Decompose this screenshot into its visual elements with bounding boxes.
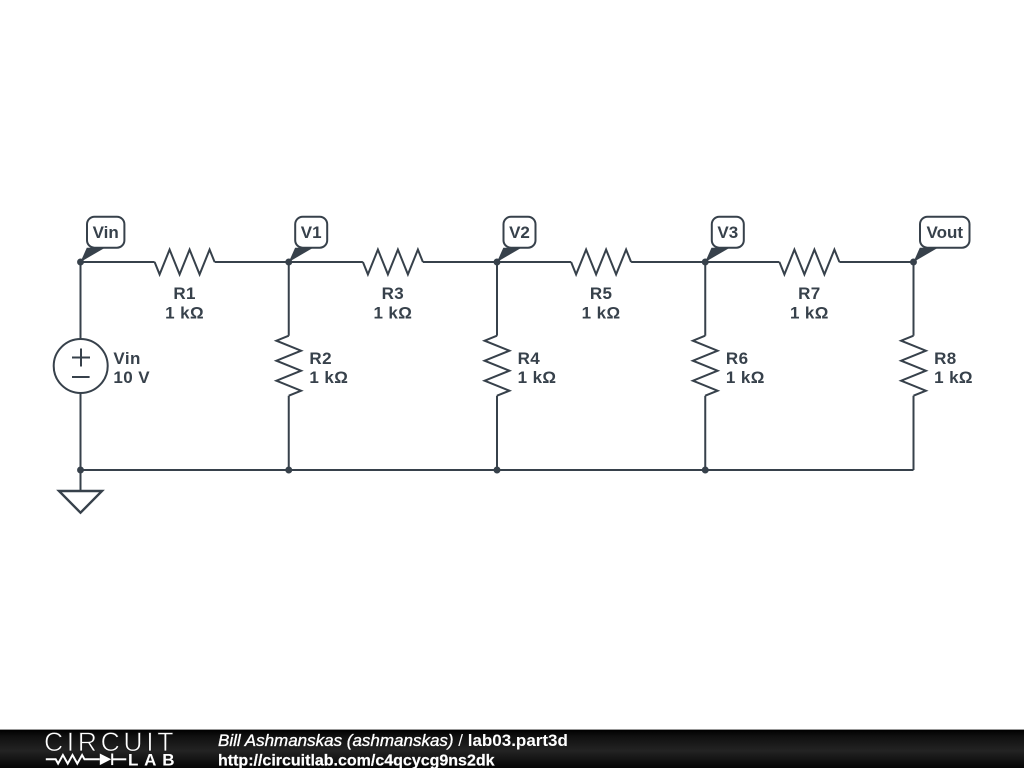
svg-text:1 kΩ: 1 kΩ xyxy=(373,304,412,323)
wire top segment R5 to V3 xyxy=(631,261,705,263)
svg-text:R1: R1 xyxy=(173,284,196,303)
resistor R4 xyxy=(485,336,510,396)
wire R2 down to bottom rail xyxy=(288,396,290,470)
svg-text:R7: R7 xyxy=(798,284,821,303)
wire R8 down to bottom rail xyxy=(913,396,915,470)
svg-text:1 kΩ: 1 kΩ xyxy=(582,304,621,323)
wire R6 down to bottom rail xyxy=(704,396,706,470)
bottom rail junction dot below Vin xyxy=(77,467,84,474)
wire top segment V3 to R7 xyxy=(705,261,779,263)
svg-text:Vin: Vin xyxy=(93,223,119,242)
svg-text:V1: V1 xyxy=(301,223,322,242)
node V2 junction dot xyxy=(494,259,501,266)
wire source bottom to bottom rail xyxy=(80,393,82,470)
svg-text:1 kΩ: 1 kΩ xyxy=(165,304,204,323)
ground xyxy=(59,491,102,513)
svg-text:1 kΩ: 1 kΩ xyxy=(934,368,973,387)
resistor R5 xyxy=(571,250,631,275)
wire V2 node down to R4 xyxy=(496,262,498,336)
svg-text:Vout: Vout xyxy=(927,223,964,242)
node V2 flag xyxy=(497,248,522,262)
svg-text:1 kΩ: 1 kΩ xyxy=(726,368,765,387)
svg-text:1 kΩ: 1 kΩ xyxy=(518,368,557,387)
bottom rail junction dot below V3 xyxy=(702,467,709,474)
svg-text:R2: R2 xyxy=(309,349,332,368)
svg-text:R8: R8 xyxy=(934,349,957,368)
svg-text:R5: R5 xyxy=(590,284,613,303)
node V1 junction dot xyxy=(285,259,292,266)
wire V1 node down to R2 xyxy=(288,262,290,336)
node V1 flag xyxy=(289,248,313,262)
wire Vin node down to source top xyxy=(80,262,82,339)
wire top segment V1 to R3 xyxy=(289,261,363,263)
CircuitLab logo: resistor-diode symbol xyxy=(46,755,100,764)
svg-text:R6: R6 xyxy=(726,349,749,368)
svg-text:V2: V2 xyxy=(509,223,530,242)
node Vin flag xyxy=(81,248,106,262)
resistor R8 xyxy=(901,336,926,396)
wire Vout node down to R8 xyxy=(913,262,915,336)
resistor R3 xyxy=(363,250,423,275)
svg-text:R3: R3 xyxy=(382,284,405,303)
svg-text:http://circuitlab.com/c4qcycg9: http://circuitlab.com/c4qcycg9ns2dk xyxy=(218,752,495,768)
node Vout junction dot xyxy=(910,259,917,266)
resistor R6 xyxy=(693,336,718,396)
wire ground stub xyxy=(80,470,82,491)
bottom rail junction dot below V1 xyxy=(285,467,292,474)
node V3 flag xyxy=(705,248,730,262)
svg-text:R4: R4 xyxy=(518,349,541,368)
wire bottom rail xyxy=(81,469,914,471)
svg-text:1 kΩ: 1 kΩ xyxy=(309,368,348,387)
node Vin junction dot xyxy=(77,259,84,266)
svg-text:Bill Ashmanskas (ashmanskas) /: Bill Ashmanskas (ashmanskas) / lab03.par… xyxy=(218,731,568,750)
voltage source Vin 10 V xyxy=(54,339,108,393)
wire top segment Vin to R1 xyxy=(81,261,155,263)
wire V3 node down to R6 xyxy=(704,262,706,336)
svg-text:V3: V3 xyxy=(717,223,738,242)
svg-text:10 V: 10 V xyxy=(113,368,150,387)
resistor R7 xyxy=(779,250,839,275)
wire R4 down to bottom rail xyxy=(496,396,498,470)
wire top segment R3 to V2 xyxy=(423,261,497,263)
resistor R1 xyxy=(155,250,215,275)
node Vout flag xyxy=(914,248,939,262)
bottom rail junction dot below V2 xyxy=(494,467,501,474)
svg-text:LAB: LAB xyxy=(128,750,180,768)
wire top segment R7 to Vout xyxy=(839,261,913,263)
resistor R2 xyxy=(276,336,301,396)
svg-text:1 kΩ: 1 kΩ xyxy=(790,304,829,323)
node V3 junction dot xyxy=(702,259,709,266)
svg-text:Vin: Vin xyxy=(113,349,140,368)
wire top segment R1 to V1 xyxy=(215,261,289,263)
wire top segment V2 to R5 xyxy=(497,261,571,263)
